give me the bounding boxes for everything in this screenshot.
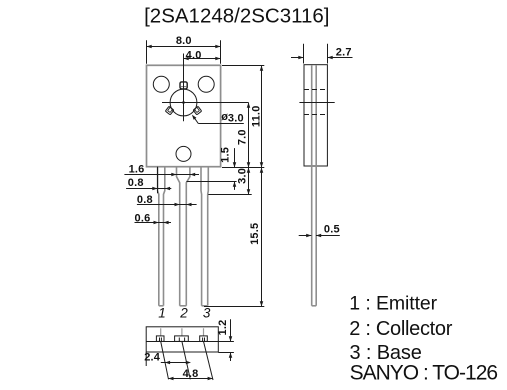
svg-text:3.0: 3.0	[236, 168, 248, 184]
body bottom extension line	[222, 167, 264, 169]
lower hole	[176, 146, 191, 161]
dimension 0.8 (lead1 root width)	[126, 177, 171, 190]
svg-text:2.4: 2.4	[144, 352, 161, 364]
svg-text:2 : Collector: 2 : Collector	[349, 318, 452, 340]
bottom view lead 3 stub	[200, 336, 208, 342]
svg-text:1 : Emitter: 1 : Emitter	[349, 293, 437, 315]
dimension 2.4	[144, 352, 191, 366]
svg-text:1: 1	[158, 305, 166, 320]
lower-right tab on center hole	[193, 106, 202, 115]
svg-text:4.0: 4.0	[186, 49, 202, 61]
slant extension from lead1	[161, 341, 169, 379]
front view package body	[147, 65, 221, 166]
svg-text:0.8: 0.8	[128, 177, 144, 189]
dimension 1.5	[187, 147, 237, 190]
dimension 0.5	[299, 223, 340, 237]
bottom view lead 1 stub	[156, 336, 164, 342]
leader φ3.0	[192, 111, 244, 124]
extension line over lead1 left edge	[157, 167, 159, 194]
bottom view lead 2 stub	[175, 336, 189, 342]
dimension 1.6 (lead2 root width)	[124, 164, 199, 177]
slant extension from lead3	[204, 341, 214, 380]
svg-text:3: 3	[203, 305, 211, 320]
side view lead (edge-on)	[312, 65, 317, 305]
svg-text:3.0: 3.0	[228, 112, 244, 124]
top tab on center hole	[180, 82, 187, 89]
dimension 8.0	[147, 35, 221, 64]
center mounting hole φ3.0	[170, 89, 197, 116]
side view body	[304, 65, 327, 166]
bottom view lead center ticks	[161, 328, 204, 336]
svg-text:2: 2	[179, 305, 188, 320]
dimension 0.8 (lead2 tip width)	[137, 194, 197, 206]
svg-text:SANYO : TO-126: SANYO : TO-126	[350, 361, 498, 384]
dimension 11.0	[222, 66, 264, 168]
dimension 15.5	[204, 168, 264, 307]
svg-text:8.0: 8.0	[176, 35, 192, 47]
center crosshair horizontal	[162, 102, 249, 104]
lower-left tab on center hole	[165, 106, 174, 115]
lead 1 (emitter)	[158, 167, 165, 306]
svg-text:1.6: 1.6	[129, 164, 145, 176]
dimension 0.6 (lead1 tip width)	[135, 212, 172, 224]
svg-text:15.5: 15.5	[249, 223, 261, 245]
upper-left hole	[153, 76, 169, 92]
dimension 1.2	[217, 319, 234, 361]
upper-right hole	[198, 76, 214, 92]
dimension 4.8	[168, 368, 213, 380]
dimension 4.0	[184, 49, 221, 61]
lead 3 (base)	[201, 167, 208, 306]
bottom view outline	[146, 327, 218, 352]
svg-text:0.6: 0.6	[135, 212, 151, 224]
lead 2 (collector)	[177, 167, 190, 306]
dimension 3.0 (lead shoulder)	[208, 168, 251, 195]
dimension 7.0	[236, 103, 250, 168]
svg-text:1.2: 1.2	[217, 320, 229, 336]
svg-text:0.8: 0.8	[137, 194, 153, 206]
dimension 2.7	[291, 44, 353, 64]
svg-text:4.8: 4.8	[183, 368, 199, 380]
svg-text:1.5: 1.5	[220, 147, 232, 163]
svg-text:7.0: 7.0	[236, 129, 248, 145]
svg-text:[2SA1248/2SC3116]: [2SA1248/2SC3116]	[144, 4, 329, 27]
svg-text:2.7: 2.7	[336, 47, 352, 59]
side view center line	[299, 102, 334, 104]
center crosshair vertical	[183, 54, 185, 122]
hidden hole lines (dashed)	[304, 89, 327, 91]
svg-text:0.5: 0.5	[324, 223, 340, 235]
bottom view parting line	[146, 341, 218, 343]
svg-text:11.0: 11.0	[251, 105, 263, 127]
slant extension from lead2	[182, 341, 190, 379]
center dot	[182, 101, 184, 103]
